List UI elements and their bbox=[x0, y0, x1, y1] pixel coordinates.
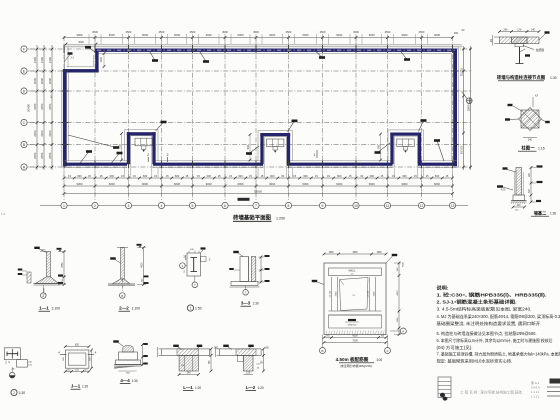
svg-text:4.50m 板配筋图: 4.50m 板配筋图 bbox=[336, 356, 369, 363]
svg-text:1. 砼:C30⁴, 钢筋HPB335(Ⅰ)、HRB335(: 1. 砼:C30⁴, 钢筋HPB335(Ⅰ)、HRB335(Ⅱ). bbox=[437, 292, 547, 299]
svg-text:600: 600 bbox=[110, 174, 115, 178]
svg-text:15: 15 bbox=[426, 174, 429, 178]
svg-text:C1: C1 bbox=[353, 295, 357, 297]
bottom dimension chain row1 bbox=[63, 174, 454, 180]
detail D4 section 1-1 bbox=[18, 247, 66, 299]
title block center text bbox=[460, 390, 523, 395]
svg-text:600: 600 bbox=[207, 174, 212, 178]
svg-text:13: 13 bbox=[451, 204, 455, 208]
svg-text:120: 120 bbox=[517, 28, 522, 31]
svg-text:3000: 3000 bbox=[78, 41, 84, 44]
svg-text:1: 1 bbox=[314, 153, 316, 157]
svg-text:砖墙与构造柱连接节点图: 砖墙与构造柱连接节点图 bbox=[497, 74, 546, 81]
svg-text:6000: 6000 bbox=[369, 33, 375, 37]
svg-text:B: B bbox=[321, 349, 323, 353]
svg-text:15: 15 bbox=[414, 174, 417, 178]
detail D1 brick wall/column node bbox=[490, 28, 550, 63]
title block right text bbox=[531, 381, 540, 399]
svg-text:3150: 3150 bbox=[48, 103, 52, 110]
svg-text:4500: 4500 bbox=[92, 30, 98, 34]
left step gray verticals bbox=[65, 47, 69, 69]
svg-text:15: 15 bbox=[445, 174, 448, 178]
svg-text:1—1: 1—1 bbox=[39, 306, 49, 311]
svg-text:4500: 4500 bbox=[126, 30, 132, 34]
notch 2 side dim bbox=[247, 133, 252, 161]
left step wall navy horizontal bbox=[63, 55, 99, 73]
right wall navy bbox=[451, 47, 458, 168]
svg-text:15: 15 bbox=[360, 174, 363, 178]
detail D12 title bbox=[246, 385, 264, 391]
svg-text:A: A bbox=[42, 294, 44, 298]
svg-text:240: 240 bbox=[517, 205, 522, 207]
notch 1 walls bbox=[125, 130, 159, 178]
svg-text:120: 120 bbox=[515, 210, 519, 212]
detail D5 section 2-2 bbox=[108, 244, 149, 298]
svg-text:15: 15 bbox=[380, 174, 383, 178]
svg-text:6000: 6000 bbox=[369, 182, 375, 186]
svg-text:2000: 2000 bbox=[48, 77, 52, 84]
svg-text:2100: 2100 bbox=[40, 56, 44, 63]
svg-text:24: 24 bbox=[8, 362, 11, 364]
svg-text:600: 600 bbox=[270, 174, 275, 178]
bottom wall segment 1 bbox=[64, 161, 128, 168]
detail D3 wall footing section bbox=[497, 165, 543, 211]
svg-text:9000: 9000 bbox=[336, 33, 342, 37]
bottom dimension chain row2 bbox=[63, 182, 454, 188]
svg-text:6000: 6000 bbox=[434, 182, 440, 186]
svg-text:15: 15 bbox=[218, 174, 221, 178]
svg-text:750: 750 bbox=[326, 335, 330, 337]
svg-text:4500: 4500 bbox=[353, 30, 359, 34]
svg-text:240: 240 bbox=[187, 372, 192, 374]
svg-text:工 程 名 称 : 某住宅楼 结构施工图 基础: 工 程 名 称 : 某住宅楼 结构施工图 基础 bbox=[460, 390, 523, 395]
svg-text:6000: 6000 bbox=[352, 335, 358, 337]
svg-text:1 1 1 1: 1 1 1 1 bbox=[531, 395, 540, 399]
svg-text:4500: 4500 bbox=[352, 252, 358, 254]
svg-text:4—4: 4—4 bbox=[120, 378, 130, 383]
svg-text:600: 600 bbox=[143, 174, 148, 178]
detail D11 section L-1 bbox=[158, 345, 219, 376]
svg-text:15: 15 bbox=[121, 174, 124, 178]
notch 2 walls bbox=[258, 130, 293, 177]
detail D13 title bbox=[336, 356, 383, 368]
svg-text:2250: 2250 bbox=[48, 152, 52, 159]
svg-text:120: 120 bbox=[246, 372, 251, 374]
stair symbol notch 2 bbox=[267, 139, 284, 153]
vertical grid lines 1-13 bbox=[64, 36, 453, 200]
svg-text:9000: 9000 bbox=[77, 182, 83, 186]
svg-text:240: 240 bbox=[190, 249, 194, 251]
svg-text:1:2: 1:2 bbox=[1, 212, 6, 216]
detail D13 4.50m slab bbox=[312, 252, 407, 354]
svg-text:6000: 6000 bbox=[238, 182, 244, 186]
detail D7 section 3-3 bbox=[229, 251, 269, 295]
svg-text:E: E bbox=[23, 69, 26, 73]
svg-text:9000: 9000 bbox=[402, 33, 408, 37]
svg-text:15: 15 bbox=[154, 174, 157, 178]
wall grid pilaster ticks bbox=[62, 45, 459, 169]
svg-text:5. 构造柱与砖墙连接做法见本图节点, 拉结筋2Φ6@500: 5. 构造柱与砖墙连接做法见本图节点, 拉结筋2Φ6@500. bbox=[437, 330, 537, 336]
svg-text:4: 4 bbox=[58, 351, 60, 355]
svg-text:600: 600 bbox=[402, 174, 407, 178]
svg-text:2200: 2200 bbox=[33, 130, 37, 137]
top wall gray outline bbox=[65, 45, 463, 54]
svg-text:1: 1 bbox=[190, 306, 192, 310]
svg-text:6000: 6000 bbox=[303, 182, 309, 186]
svg-text:3: 3 bbox=[128, 204, 130, 208]
svg-text:300: 300 bbox=[265, 347, 270, 350]
svg-text:B: B bbox=[23, 143, 26, 147]
svg-text:12: 12 bbox=[420, 204, 424, 208]
svg-text:7: 7 bbox=[245, 291, 247, 295]
svg-text:9000: 9000 bbox=[402, 182, 408, 186]
svg-text:1:20: 1:20 bbox=[195, 386, 201, 390]
svg-text:墙基二: 墙基二 bbox=[534, 210, 547, 217]
bottom dimension overall bbox=[63, 170, 454, 196]
detail D2 column section bbox=[505, 95, 550, 142]
notch 1 side dim bbox=[118, 132, 123, 161]
svg-text:B: B bbox=[121, 294, 123, 298]
step label J-1 bbox=[64, 41, 105, 68]
svg-text:9000: 9000 bbox=[142, 33, 148, 37]
svg-text:1:20: 1:20 bbox=[258, 386, 264, 390]
svg-text:4500: 4500 bbox=[385, 30, 391, 34]
detail D8 node 2 plan bbox=[4, 348, 32, 378]
svg-text:600: 600 bbox=[175, 174, 180, 178]
svg-text:9000: 9000 bbox=[206, 33, 212, 37]
svg-text:2000: 2000 bbox=[33, 77, 37, 84]
svg-text:1: 1 bbox=[50, 95, 52, 99]
svg-text:120: 120 bbox=[256, 364, 260, 366]
detail D6 title bbox=[187, 305, 201, 311]
svg-text:2550: 2550 bbox=[62, 262, 64, 268]
svg-text:规定: 基础砌筑采用M10水泥砂浆实心砖.: 规定: 基础砌筑采用M10水泥砂浆实心砖. bbox=[437, 357, 513, 363]
svg-text:9000: 9000 bbox=[269, 182, 275, 186]
svg-text:1:30: 1:30 bbox=[550, 76, 557, 80]
detail D8 title bbox=[11, 389, 25, 395]
svg-text:11: 11 bbox=[386, 204, 390, 208]
svg-text:J—1: J—1 bbox=[71, 384, 81, 389]
svg-text:750: 750 bbox=[380, 335, 384, 337]
detail D7 title bbox=[241, 301, 259, 307]
svg-text:2250: 2250 bbox=[40, 152, 44, 159]
svg-text:140: 140 bbox=[67, 369, 71, 371]
svg-text:1:30: 1:30 bbox=[550, 212, 556, 216]
svg-text:3: 3 bbox=[183, 270, 185, 274]
left edge text fragment bbox=[1, 212, 6, 216]
detail D11 title bbox=[183, 385, 201, 391]
svg-text:9000: 9000 bbox=[206, 182, 212, 186]
svg-text:1200: 1200 bbox=[397, 317, 399, 322]
detail D2 title bbox=[518, 145, 545, 152]
svg-text:6. 本图尺寸除标高以m计外, 其余均以mm计, 施工时与建: 6. 本图尺寸除标高以m计外, 其余均以mm计, 施工时与建施图 校核后 bbox=[437, 337, 553, 343]
left wall navy bbox=[62, 69, 69, 167]
notch 3 side dim bbox=[377, 133, 382, 162]
top dimension chain bbox=[63, 33, 454, 39]
svg-text:780: 780 bbox=[262, 360, 264, 365]
svg-text:15: 15 bbox=[315, 174, 318, 178]
svg-text:9000: 9000 bbox=[269, 33, 275, 37]
svg-text:60: 60 bbox=[257, 368, 260, 370]
svg-text:15: 15 bbox=[68, 174, 71, 178]
svg-text:1:50: 1:50 bbox=[195, 307, 202, 311]
svg-text:6000: 6000 bbox=[109, 33, 115, 37]
svg-text:140: 140 bbox=[84, 369, 88, 371]
svg-text:240: 240 bbox=[531, 28, 536, 31]
svg-text:120: 120 bbox=[28, 365, 32, 367]
svg-text:A: A bbox=[402, 329, 404, 333]
svg-text:58000: 58000 bbox=[254, 189, 262, 193]
svg-text:2250: 2250 bbox=[33, 152, 37, 159]
svg-text:2100: 2100 bbox=[48, 56, 52, 63]
svg-text:11800: 11800 bbox=[466, 104, 470, 112]
svg-text:WKL1: WKL1 bbox=[348, 269, 356, 273]
svg-text:4.50: 4.50 bbox=[501, 190, 506, 192]
section cut 1-1 marks bbox=[50, 95, 317, 158]
svg-text:7: 7 bbox=[255, 204, 257, 208]
svg-text:L—2: L—2 bbox=[246, 385, 256, 390]
bottom wall segment 2 bbox=[153, 161, 263, 168]
svg-text:6000: 6000 bbox=[238, 33, 244, 37]
svg-text:600 900: 600 900 bbox=[461, 145, 463, 154]
notch 3 walls bbox=[388, 130, 424, 178]
svg-text:900: 900 bbox=[377, 144, 380, 149]
svg-text:15: 15 bbox=[349, 174, 352, 178]
top window dim clusters bbox=[89, 30, 428, 44]
svg-text:7: 7 bbox=[194, 283, 196, 287]
svg-text:15: 15 bbox=[166, 174, 169, 178]
detail D3 title bbox=[531, 210, 556, 217]
svg-text:10: 10 bbox=[354, 204, 358, 208]
stair symbol notch 3 bbox=[397, 139, 414, 153]
svg-text:240: 240 bbox=[28, 362, 32, 364]
svg-text:60: 60 bbox=[462, 29, 465, 32]
top foundation wall navy bbox=[97, 49, 457, 52]
svg-text:240: 240 bbox=[528, 139, 533, 142]
svg-text:浙 G 4: 浙 G 4 bbox=[531, 381, 540, 385]
svg-text:15: 15 bbox=[100, 174, 103, 178]
right dimension chains bbox=[461, 46, 472, 170]
title block left table bbox=[438, 377, 451, 401]
svg-text:240: 240 bbox=[504, 28, 509, 31]
svg-text:2200: 2200 bbox=[48, 130, 52, 137]
svg-text:1:100: 1:100 bbox=[132, 307, 141, 311]
svg-text:1500: 1500 bbox=[328, 252, 334, 254]
svg-text:15: 15 bbox=[260, 174, 263, 178]
detail D10 title bbox=[120, 378, 138, 384]
svg-text:5: 5 bbox=[192, 204, 194, 208]
wall leader labels bbox=[68, 46, 444, 164]
top right corner dims bbox=[454, 29, 465, 35]
svg-text:15: 15 bbox=[327, 174, 330, 178]
svg-text:3. 4.5-5m结构标高梁板配筋见本图, 梁宽240.: 3. 4.5-5m结构标高梁板配筋见本图, 梁宽240. bbox=[437, 306, 532, 312]
svg-text:540: 540 bbox=[75, 369, 79, 371]
svg-text:2 0 0 4: 2 0 0 4 bbox=[531, 386, 540, 390]
svg-text:600: 600 bbox=[529, 188, 531, 193]
svg-text:4500: 4500 bbox=[286, 30, 292, 34]
notes text block bbox=[437, 285, 560, 364]
svg-text:2—2: 2—2 bbox=[119, 306, 129, 311]
svg-text:2: 2 bbox=[182, 264, 184, 268]
svg-text:100: 100 bbox=[142, 278, 144, 282]
svg-text:3300: 3300 bbox=[336, 291, 338, 296]
svg-text:1500: 1500 bbox=[100, 57, 103, 63]
left step wall navy vertical bbox=[95, 49, 98, 73]
svg-text:柱图一: 柱图一 bbox=[521, 145, 535, 152]
detail D9 J-1 plan bbox=[58, 343, 97, 373]
svg-text:2: 2 bbox=[167, 153, 169, 157]
stair symbol notch 1 bbox=[135, 138, 152, 152]
detail D12 section L-2 bbox=[216, 345, 270, 375]
svg-text:(04) 方可施工(见).: (04) 方可施工(见). bbox=[437, 344, 473, 350]
svg-text:2000: 2000 bbox=[40, 77, 44, 84]
svg-text:620: 620 bbox=[90, 356, 92, 361]
svg-text:1500: 1500 bbox=[376, 252, 382, 254]
detail D4 title bbox=[39, 306, 61, 312]
svg-text:9000: 9000 bbox=[77, 33, 83, 37]
bottom wall segment 3 bbox=[287, 161, 393, 168]
svg-text:A: A bbox=[23, 165, 26, 169]
bottom wall segment 4 bbox=[418, 161, 457, 168]
section cut 2-2 marks bbox=[147, 153, 168, 162]
svg-text:C: C bbox=[23, 121, 26, 125]
svg-text:4500: 4500 bbox=[320, 30, 326, 34]
svg-text:4500: 4500 bbox=[419, 30, 425, 34]
svg-text::100: :100 bbox=[376, 358, 382, 362]
svg-text:1 1 1 1: 1 1 1 1 bbox=[531, 390, 540, 394]
svg-text:900: 900 bbox=[397, 267, 399, 271]
svg-text:4. MJ 为基础连系梁240×300, 配筋4Φ14, 箍: 4. MJ 为基础连系梁240×300, 配筋4Φ14, 箍筋Φ8@200, 梁… bbox=[437, 313, 560, 319]
svg-text:15: 15 bbox=[293, 174, 296, 178]
svg-text:900: 900 bbox=[454, 32, 459, 35]
svg-text:3150: 3150 bbox=[40, 103, 44, 110]
svg-text:9000: 9000 bbox=[336, 182, 342, 186]
svg-text:4500: 4500 bbox=[222, 30, 228, 34]
svg-text:砖墙基础平面图: 砖墙基础平面图 bbox=[233, 214, 271, 222]
svg-text:1:15: 1:15 bbox=[538, 147, 545, 151]
svg-text:490: 490 bbox=[11, 369, 15, 371]
svg-text:250 250: 250 250 bbox=[461, 67, 463, 76]
svg-text:说明:: 说明: bbox=[437, 285, 450, 292]
svg-text:9: 9 bbox=[322, 204, 324, 208]
svg-text:L—1: L—1 bbox=[183, 385, 193, 390]
svg-text:1: 1 bbox=[63, 204, 65, 208]
svg-text:780: 780 bbox=[209, 360, 211, 365]
svg-text:墙: 墙 bbox=[490, 39, 493, 43]
svg-text:4500: 4500 bbox=[159, 30, 165, 34]
svg-text:1:20: 1:20 bbox=[82, 385, 88, 389]
svg-text:2: 2 bbox=[147, 153, 149, 157]
svg-text:4500: 4500 bbox=[397, 290, 399, 296]
svg-text:XX: XX bbox=[535, 95, 539, 98]
svg-text:4000: 4000 bbox=[142, 262, 144, 268]
svg-text:15: 15 bbox=[281, 174, 284, 178]
svg-text:3: 3 bbox=[209, 258, 211, 262]
svg-text:600: 600 bbox=[370, 174, 375, 178]
svg-text:2200: 2200 bbox=[40, 130, 44, 137]
svg-text:9000: 9000 bbox=[142, 182, 148, 186]
svg-text:L1 240: L1 240 bbox=[330, 290, 332, 297]
benchmark symbol right bbox=[462, 92, 473, 104]
svg-text:8500: 8500 bbox=[403, 261, 405, 266]
svg-text:900: 900 bbox=[247, 145, 250, 150]
detail D6 node plan bbox=[180, 247, 211, 287]
svg-text:2: 2 bbox=[13, 391, 15, 395]
svg-text:3150: 3150 bbox=[33, 103, 37, 110]
svg-text:基础圈梁整浇, 未注明处按构造要求设置, 遇洞口断开.: 基础圈梁整浇, 未注明处按构造要求设置, 遇洞口断开. bbox=[437, 320, 542, 326]
svg-text:6000: 6000 bbox=[303, 33, 309, 37]
svg-text:15: 15 bbox=[392, 174, 395, 178]
svg-text:15: 15 bbox=[229, 174, 232, 178]
svg-text:20400: 20400 bbox=[27, 104, 31, 112]
svg-text:1:30: 1:30 bbox=[19, 391, 26, 395]
svg-text:1:30: 1:30 bbox=[132, 379, 138, 383]
svg-text:C: C bbox=[386, 349, 389, 353]
horizontal grid lines A-F bbox=[30, 49, 472, 167]
detail D9 title bbox=[71, 384, 89, 390]
svg-text:3—3: 3—3 bbox=[241, 301, 251, 306]
detail D10 section 4-4 bbox=[113, 340, 148, 374]
svg-text:2: 2 bbox=[94, 204, 96, 208]
svg-text:15: 15 bbox=[249, 174, 252, 178]
svg-text:4500: 4500 bbox=[253, 30, 259, 34]
svg-text:拉结筋: 拉结筋 bbox=[536, 48, 545, 52]
svg-text:600: 600 bbox=[77, 174, 82, 178]
grid bubbles 1-13 bottom bbox=[40, 198, 468, 209]
svg-text:6000: 6000 bbox=[174, 33, 180, 37]
svg-text:4500: 4500 bbox=[190, 30, 196, 34]
svg-text:1:30: 1:30 bbox=[253, 302, 259, 306]
svg-text:8: 8 bbox=[288, 204, 290, 208]
svg-text:3: 3 bbox=[183, 255, 185, 259]
svg-text:D: D bbox=[23, 89, 26, 93]
svg-text:1:200: 1:200 bbox=[276, 217, 285, 221]
svg-text:6000: 6000 bbox=[434, 33, 440, 37]
svg-text:15: 15 bbox=[88, 174, 91, 178]
svg-text:J-1: J-1 bbox=[70, 56, 74, 60]
detail D1 title bbox=[497, 74, 557, 81]
grid bubbles F-A left bbox=[21, 46, 34, 170]
svg-text:6: 6 bbox=[224, 204, 226, 208]
svg-text:1:100: 1:100 bbox=[52, 307, 61, 311]
svg-text:3300: 3300 bbox=[374, 291, 376, 296]
svg-text:600: 600 bbox=[303, 174, 308, 178]
svg-text:15: 15 bbox=[133, 174, 136, 178]
left dimension chains bbox=[27, 45, 54, 170]
svg-text:150: 150 bbox=[62, 278, 64, 282]
svg-text:15: 15 bbox=[185, 174, 188, 178]
svg-text:6000: 6000 bbox=[174, 182, 180, 186]
title block far right bbox=[547, 379, 560, 397]
svg-text:360: 360 bbox=[63, 356, 65, 360]
svg-text:600: 600 bbox=[337, 174, 342, 178]
svg-text:2100: 2100 bbox=[33, 56, 37, 63]
detail D5 title bbox=[119, 306, 141, 312]
svg-text:600: 600 bbox=[435, 174, 440, 178]
svg-text:900: 900 bbox=[529, 172, 531, 177]
svg-text:15: 15 bbox=[197, 174, 200, 178]
svg-text:(未注明分布筋Φ8@200): (未注明分布筋Φ8@200) bbox=[340, 363, 372, 368]
svg-text:6000: 6000 bbox=[109, 182, 115, 186]
svg-text:7500: 7500 bbox=[352, 339, 358, 342]
svg-text:Φ8@200: Φ8@200 bbox=[348, 323, 358, 326]
svg-text:F: F bbox=[23, 47, 25, 51]
svg-text:4: 4 bbox=[161, 204, 163, 208]
svg-text:820: 820 bbox=[75, 343, 80, 346]
svg-text:4: 4 bbox=[95, 351, 97, 355]
svg-text:2. SJ-1⁴钢筋混凝土条形基础详图.: 2. SJ-1⁴钢筋混凝土条形基础详图. bbox=[437, 299, 517, 306]
svg-text:900: 900 bbox=[126, 373, 130, 375]
